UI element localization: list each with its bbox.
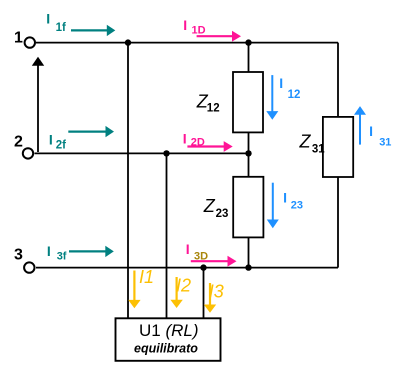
arrow I3D (magenta) xyxy=(191,256,237,267)
terminal 1 xyxy=(25,37,35,47)
arrow I2f (teal) xyxy=(68,126,114,137)
svg-text:I3: I3 xyxy=(209,281,224,301)
junction: phase2 / drop2 xyxy=(163,150,169,156)
svg-text:1: 1 xyxy=(14,29,23,46)
wire: load drop from phase 1 xyxy=(127,43,129,319)
load box U1 xyxy=(116,318,221,361)
wire: phase 2 horizontal xyxy=(35,152,249,154)
label Z12 xyxy=(196,91,220,114)
wire: phase 1 horizontal xyxy=(36,42,338,44)
svg-text:12: 12 xyxy=(207,103,220,115)
arrow I3f (teal) xyxy=(69,246,114,257)
svg-text:2f: 2f xyxy=(56,139,66,151)
label I31 xyxy=(369,123,391,148)
arrow I23 (blue down) xyxy=(267,183,279,229)
wire: right vertical upper (top corner to Z31 top) xyxy=(337,43,339,117)
wire: phase 3 horizontal xyxy=(36,267,338,269)
arrow I31 (blue up) xyxy=(354,106,366,145)
svg-text:equilibrato: equilibrato xyxy=(134,342,198,356)
svg-text:I: I xyxy=(183,131,187,147)
svg-text:3D: 3D xyxy=(194,251,208,263)
wire: Z23 top stub xyxy=(248,153,250,176)
svg-text:12: 12 xyxy=(288,89,301,101)
svg-text:I: I xyxy=(49,132,53,148)
svg-text:31: 31 xyxy=(379,136,391,148)
arrow I2D (magenta) xyxy=(187,141,232,152)
label I23 xyxy=(283,189,303,211)
junction: phase3 / Z23 bottom xyxy=(245,264,251,270)
wire: Z12 bottom stub xyxy=(248,132,250,153)
svg-text:31: 31 xyxy=(312,143,325,155)
svg-text:U1 (RL): U1 (RL) xyxy=(139,321,199,340)
terminal 3 xyxy=(24,262,34,272)
arrow I1 (yellow down into load) xyxy=(128,271,140,309)
impedance Z23 xyxy=(233,177,263,238)
arrow I3 (yellow down into load) xyxy=(204,283,216,313)
svg-text:1f: 1f xyxy=(56,22,66,34)
svg-text:2D: 2D xyxy=(191,137,205,149)
svg-text:I: I xyxy=(186,241,190,257)
label Z31 xyxy=(299,131,326,155)
svg-text:1D: 1D xyxy=(192,24,206,36)
svg-text:I: I xyxy=(283,189,287,205)
svg-text:2: 2 xyxy=(14,134,23,151)
svg-text:Z: Z xyxy=(203,196,216,216)
label Z23 xyxy=(203,196,229,220)
label I3f xyxy=(47,243,67,262)
label I2D xyxy=(183,131,205,149)
svg-text:I: I xyxy=(47,243,51,259)
wire: Z23 bottom stub xyxy=(248,237,250,267)
svg-text:I1: I1 xyxy=(139,267,154,287)
impedance Z31 xyxy=(323,117,353,177)
label I12 xyxy=(279,75,300,101)
svg-text:Z: Z xyxy=(299,131,312,151)
svg-text:I2: I2 xyxy=(176,276,191,296)
junction: phase3 / drop3 xyxy=(200,264,206,270)
svg-text:I: I xyxy=(369,123,373,139)
arrow I1D (magenta) xyxy=(197,31,241,42)
label I3D (I magenta, 3D dark gold) xyxy=(186,241,208,263)
wire: right vertical lower (Z31 bottom to bottom corner) xyxy=(337,177,339,268)
label I2f xyxy=(49,132,66,152)
junction: phase1 / drop1 xyxy=(125,39,131,45)
svg-text:I: I xyxy=(46,11,50,27)
svg-text:23: 23 xyxy=(291,199,303,211)
wire: load drop from phase 3 xyxy=(203,268,205,319)
impedance Z12 xyxy=(233,72,263,132)
wire: Z12 top stub xyxy=(248,43,250,72)
arrow I2 (yellow down into load) xyxy=(170,277,182,308)
terminal 2 xyxy=(23,148,33,158)
arrow: neutral-less rise (black up arrow) xyxy=(32,57,44,152)
junction: phase1 / Z12 top xyxy=(245,39,251,45)
label I1D xyxy=(183,17,205,36)
svg-text:I: I xyxy=(279,75,283,91)
svg-text:3: 3 xyxy=(14,247,23,264)
wire: load drop from phase 2 xyxy=(166,153,168,318)
label I1f xyxy=(46,11,66,34)
svg-text:I: I xyxy=(183,17,187,33)
svg-text:3f: 3f xyxy=(57,250,67,262)
svg-text:23: 23 xyxy=(216,208,229,220)
junction: phase2 / Z12-Z23 xyxy=(245,150,251,156)
arrow I12 (blue down) xyxy=(266,75,278,120)
arrow I1f (teal) xyxy=(71,25,115,36)
